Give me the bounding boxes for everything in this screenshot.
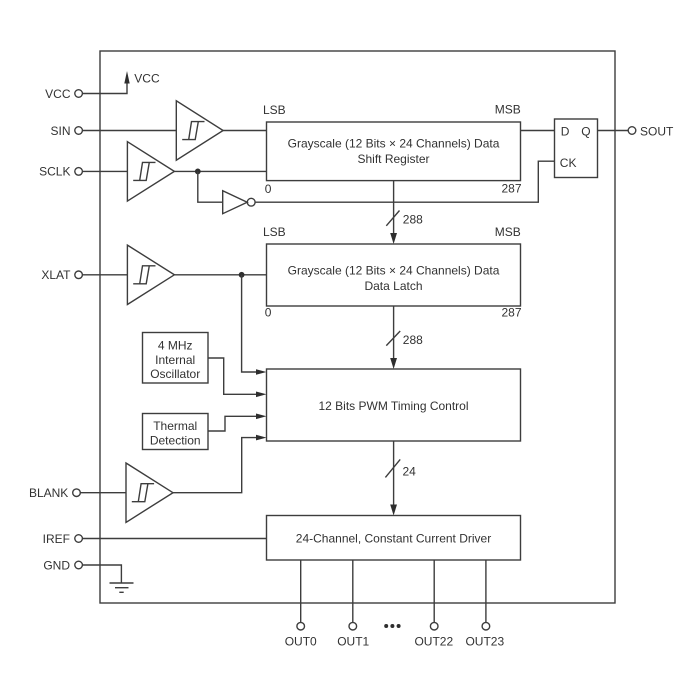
svg-text:CK: CK <box>560 156 577 170</box>
schmitt buffer U2 (SCLK) <box>127 142 174 201</box>
thermal detection block <box>143 414 209 450</box>
pin OUT1 <box>337 622 369 648</box>
svg-text:12 Bits PWM Timing Control: 12 Bits PWM Timing Control <box>318 399 468 413</box>
svg-text:VCC: VCC <box>134 72 160 86</box>
svg-text:Q: Q <box>581 125 590 139</box>
svg-text:Internal: Internal <box>155 353 195 367</box>
bus 288 shift register to latch <box>386 181 423 244</box>
svg-text:Data Latch: Data Latch <box>364 279 422 293</box>
svg-text:Oscillator: Oscillator <box>150 367 200 381</box>
bus 24 PWM to driver <box>385 441 416 516</box>
svg-text:MSB: MSB <box>495 225 521 239</box>
wire SIN to buffer <box>82 130 176 132</box>
pin SIN <box>50 124 82 138</box>
wire BLANK buffer to PWM control <box>173 438 256 493</box>
wire inverter to CK <box>255 161 554 202</box>
constant current driver block <box>267 516 521 561</box>
wire IREF to driver <box>82 538 266 540</box>
pin OUT0 <box>285 622 317 648</box>
pin SCLK <box>39 165 82 179</box>
wire GND to ground <box>82 565 121 583</box>
svg-text:XLAT: XLAT <box>41 268 71 282</box>
arrow into PWM (XLAT) <box>256 369 267 375</box>
svg-text:OUT0: OUT0 <box>285 635 317 649</box>
bus 288 latch to PWM <box>386 306 423 369</box>
VCC supply arrow <box>124 71 160 86</box>
wire OUT0 <box>300 560 302 622</box>
PWM timing control block <box>267 369 521 441</box>
oscillator block <box>143 333 209 384</box>
svg-text:287: 287 <box>501 182 521 196</box>
svg-text:OUT1: OUT1 <box>337 635 369 649</box>
svg-text:Detection: Detection <box>150 433 201 447</box>
flip-flop U4 <box>555 119 598 178</box>
wire XLAT to buffer <box>82 274 127 276</box>
svg-text:OUT22: OUT22 <box>414 635 453 649</box>
wire VCC pin to arrow <box>82 83 127 94</box>
wire OUT23 <box>485 560 487 622</box>
svg-text:MSB: MSB <box>495 103 521 117</box>
data latch block <box>267 244 521 306</box>
pin IREF <box>43 532 83 546</box>
svg-text:0: 0 <box>265 306 272 320</box>
svg-text:287: 287 <box>501 306 521 320</box>
svg-text:OUT23: OUT23 <box>465 635 504 649</box>
svg-text:IREF: IREF <box>43 532 70 546</box>
pin OUT22 <box>414 622 453 648</box>
pin VCC <box>45 87 82 101</box>
svg-text:Thermal: Thermal <box>153 419 197 433</box>
ellipsis dots <box>384 624 400 628</box>
device outline border <box>100 51 615 603</box>
schmitt buffer U6 (BLANK) <box>126 463 173 522</box>
wire shift register to D flip-flop <box>521 130 555 132</box>
wire XLAT buffer to latch <box>174 274 266 276</box>
schmitt buffer U5 (XLAT) <box>127 245 174 304</box>
svg-text:SIN: SIN <box>50 124 70 138</box>
wire BLANK to buffer <box>80 492 126 494</box>
ground <box>110 583 134 592</box>
wire SCLK junction to inverter <box>198 171 223 202</box>
svg-text:0: 0 <box>265 182 272 196</box>
svg-text:288: 288 <box>403 212 423 226</box>
pin GND <box>43 558 82 572</box>
svg-text:Grayscale (12 Bits × 24 Channe: Grayscale (12 Bits × 24 Channels) Data <box>288 136 500 150</box>
wire Q to SOUT <box>598 130 629 132</box>
svg-text:Grayscale (12 Bits × 24 Channe: Grayscale (12 Bits × 24 Channels) Data <box>288 264 500 278</box>
pin OUT23 <box>465 622 504 648</box>
pin SOUT <box>628 124 674 138</box>
node SCLK junction <box>195 169 201 175</box>
svg-text:24-Channel, Constant Current D: 24-Channel, Constant Current Driver <box>296 532 491 546</box>
wire OUT22 <box>433 560 435 622</box>
pin BLANK <box>29 486 80 500</box>
svg-text:D: D <box>561 125 570 139</box>
svg-text:Shift Register: Shift Register <box>357 152 429 166</box>
svg-text:BLANK: BLANK <box>29 486 68 500</box>
arrow into PWM (thermal) <box>256 414 267 420</box>
svg-text:VCC: VCC <box>45 87 71 101</box>
wire XLAT junction to PWM control <box>242 275 257 372</box>
wire OUT1 <box>352 560 354 622</box>
schmitt buffer U1 (SIN) <box>176 101 223 160</box>
arrow into PWM (BLANK) <box>256 435 267 441</box>
svg-text:LSB: LSB <box>263 103 286 117</box>
wire thermal to PWM control <box>208 416 256 431</box>
wire oscillator to PWM control <box>208 358 256 394</box>
shift register block <box>267 122 521 181</box>
wire SIN buffer to shift register <box>223 130 266 132</box>
wire SCLK buffer to shift register <box>174 170 266 172</box>
node XLAT junction <box>239 272 245 278</box>
svg-text:SOUT: SOUT <box>640 124 674 138</box>
svg-text:288: 288 <box>403 333 423 347</box>
inverter U3 <box>223 191 255 214</box>
svg-text:LSB: LSB <box>263 225 286 239</box>
svg-text:4 MHz: 4 MHz <box>158 338 193 352</box>
arrow into PWM (oscillator) <box>256 392 267 398</box>
svg-text:SCLK: SCLK <box>39 165 70 179</box>
pin XLAT <box>41 268 82 282</box>
wire SCLK to buffer <box>82 170 127 172</box>
svg-text:24: 24 <box>403 464 417 478</box>
svg-text:GND: GND <box>43 558 70 572</box>
